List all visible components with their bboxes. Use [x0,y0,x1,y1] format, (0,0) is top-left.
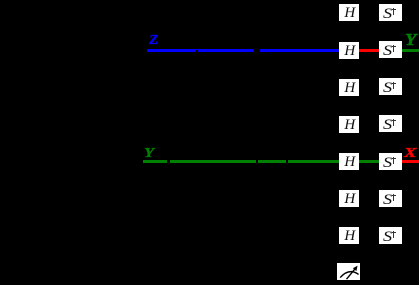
gate H on q6 [339,227,359,244]
gate H on q4 [339,153,359,170]
gate S-dagger on q4 [379,153,402,170]
wire q4 Pauli-Y flow segment 2 (green) [170,160,256,163]
gate S-dagger on q1 [379,41,402,58]
wire q4 Pauli-Y flow segment 1 (green) [143,160,167,163]
wire q4 Pauli-Y flow segment 3 (green) [258,160,286,163]
gate S-dagger on q6 [379,227,402,244]
measurement meter on q7 [337,263,360,280]
gate S-dagger on q0 [379,4,402,21]
meter needle arrowhead [353,266,358,271]
wire q1 Pauli-Y flow between H and S-dagger (red) [359,49,379,52]
gate H on q2 [339,79,359,96]
gate H on q0 [339,4,359,21]
node X label at output of qubit q4 (red) [404,147,416,161]
meter needle [347,268,357,280]
gate H on q1 [339,42,359,59]
gate S-dagger on q2 [379,78,402,95]
wire q1 Pauli-Z flow segment 2 (blue) [198,49,254,52]
node Y label on qubit q4 (green) [144,147,154,161]
wire q1 output Pauli flow stub (green) [401,49,419,52]
wire q4 Pauli-Y flow segment 4 (green) [288,160,339,163]
node Z label on qubit q1 (blue) [149,34,158,48]
gate S-dagger on q3 [379,115,402,132]
wire q1 Pauli-Z flow notch segment over vertical line (blue, half height) [196,49,199,51]
wire q4 Pauli flow between H and S-dagger (green) [359,160,379,163]
meter arc [340,272,358,278]
gate S-dagger on q5 [379,190,402,207]
wire q4 output Pauli flow stub (red) [401,160,419,163]
gate H on q5 [339,190,359,207]
gate H on q3 [339,116,359,133]
wire q1 Pauli-Z flow segment 3 (blue) [260,49,340,52]
wire q1 Pauli-Z flow segment 1 (blue) [147,49,196,52]
node Y label at output of qubit q1 (green) [405,33,416,50]
